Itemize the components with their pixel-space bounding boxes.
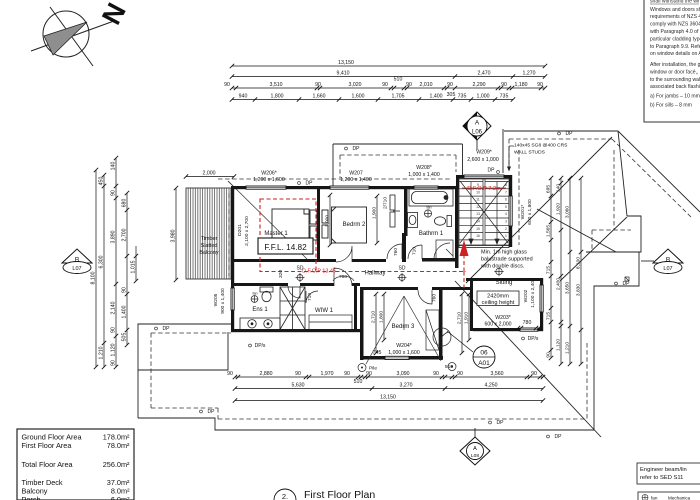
window W207 (330, 186, 369, 189)
roof eave top right solid (138, 129, 700, 437)
svg-text:90: 90 (227, 371, 233, 377)
svg-text:1,800: 1,800 (379, 311, 385, 324)
ensuite shower (280, 287, 305, 330)
DP marker top wall (298, 182, 301, 185)
svg-text:DP/s: DP/s (528, 336, 539, 342)
bed bedrm 2 (322, 207, 367, 243)
svg-text:90: 90 (406, 82, 412, 88)
sitting south wall (473, 328, 520, 331)
svg-text:a) For jambs – 10 mm: a) For jambs – 10 mm (650, 94, 700, 100)
svg-text:DP: DP (497, 420, 505, 426)
lower roof hip bottom right (455, 281, 601, 437)
svg-text:510: 510 (394, 77, 403, 83)
area schedule table (17, 429, 134, 500)
DP/s marker sitting (522, 337, 525, 340)
door bathroom (408, 245, 422, 259)
svg-text:2: 2 (505, 227, 507, 231)
svg-text:680: 680 (122, 199, 128, 208)
deck outline bottom left (138, 324, 231, 418)
svg-text:First Floor Plan: First Floor Plan (304, 489, 375, 500)
roof hip to stairwell (502, 129, 504, 173)
svg-text:760: 760 (339, 274, 347, 280)
svg-text:2,400: 2,400 (556, 278, 562, 291)
engineer note box (637, 463, 700, 484)
DP marker bottom center (489, 421, 492, 424)
svg-text:1,000 x 1,600: 1,000 x 1,600 (388, 350, 420, 356)
svg-text:11: 11 (476, 198, 480, 202)
svg-text:1,210: 1,210 (99, 346, 105, 359)
roof right step outline (586, 216, 641, 252)
dims bedrm3 left (375, 294, 377, 353)
ensuite fan symbol (251, 296, 258, 303)
bathroom fan symbol (424, 210, 431, 217)
svg-text:3,020: 3,020 (349, 82, 362, 88)
svg-text:particular cladding type, an: particular cladding type, an (650, 37, 700, 43)
svg-text:DP: DP (623, 281, 631, 287)
left dimension column 450 / 6,300 / 1,210 (103, 175, 105, 367)
svg-text:140: 140 (111, 162, 117, 171)
svg-text:2420mm: 2420mm (487, 294, 509, 300)
svg-text:1,210: 1,210 (565, 342, 571, 355)
balcony dim 3,980 (175, 188, 177, 280)
svg-text:After installation, the gap be: After installation, the gap be (650, 62, 700, 68)
svg-text:3,060: 3,060 (565, 206, 571, 219)
svg-text:90: 90 (537, 82, 543, 88)
svg-text:715: 715 (546, 266, 552, 274)
svg-text:L07: L07 (72, 266, 81, 272)
exterior top wall (231, 186, 246, 189)
balcony width dim 2,000 (186, 176, 234, 178)
svg-text:13: 13 (476, 212, 480, 216)
svg-text:505: 505 (122, 333, 128, 342)
svg-text:window or door facé,, and li: window or door facé,, and li (650, 70, 700, 76)
svg-text:A: A (473, 446, 477, 452)
dims bedrm3 right (461, 294, 463, 353)
svg-text:WALL STUDS: WALL STUDS (514, 150, 546, 156)
WIW shelves (309, 315, 352, 330)
wardrobe double doors bedrm2 (390, 195, 400, 227)
bedroom south wall (234, 259, 336, 262)
svg-text:1,565: 1,565 (546, 225, 552, 238)
window W209 (464, 175, 504, 178)
svg-text:78.0m²: 78.0m² (107, 441, 130, 450)
DP marker deck bottom (200, 410, 203, 413)
svg-text:12: 12 (476, 205, 480, 209)
window W206 (246, 186, 286, 189)
svg-text:W205: W205 (213, 293, 219, 306)
ceiling height box (477, 291, 519, 306)
svg-text:2,710: 2,710 (457, 312, 463, 325)
svg-text:SD: SD (297, 266, 304, 272)
svg-text:First Floor Area: First Floor Area (22, 441, 73, 450)
svg-text:F.F.L. 14.82: F.F.L. 14.82 (264, 243, 307, 252)
svg-text:3,830: 3,830 (576, 284, 582, 297)
balcony door dashed threshold (228, 193, 230, 276)
svg-text:1,120: 1,120 (556, 339, 562, 352)
ensuite toilet (260, 287, 273, 302)
svg-text:940: 940 (239, 94, 248, 100)
bedrm3 east wall (439, 287, 443, 360)
dimension row wall segments (232, 87, 545, 89)
bottom dim row 5,630 / 3,270 / 4,250 (235, 388, 543, 390)
svg-text:15: 15 (476, 227, 480, 231)
dashed eave along top wall (218, 178, 452, 180)
window W208 (414, 186, 438, 189)
svg-text:1,800: 1,800 (271, 94, 284, 100)
svg-text:1,100 x 2,400: 1,100 x 2,400 (530, 278, 536, 308)
bed master 1 (272, 209, 317, 242)
svg-text:L06: L06 (472, 130, 483, 136)
door WIW west (306, 291, 318, 303)
svg-text:Porch: Porch (22, 495, 41, 500)
svg-text:1,970: 1,970 (321, 371, 334, 377)
right dim col 3,060/3,650/1,210 (569, 178, 571, 364)
svg-text:Timber: Timber (201, 236, 218, 242)
svg-text:3,510: 3,510 (270, 82, 283, 88)
svg-text:W201*: W201* (520, 205, 526, 220)
bathroom basin (408, 213, 418, 228)
svg-text:9,410: 9,410 (337, 71, 350, 77)
DP marker below roof edge (547, 435, 550, 438)
svg-text:2,100 x 2,700: 2,100 x 2,700 (244, 216, 250, 246)
svg-text:DP: DP (306, 181, 314, 187)
svg-text:Hallway: Hallway (364, 271, 385, 277)
svg-text:Min. 1m high glass: Min. 1m high glass (481, 250, 527, 256)
WIW east wall (354, 283, 357, 332)
svg-text:W204*: W204* (396, 343, 412, 349)
svg-text:ceiling height: ceiling height (482, 300, 515, 306)
svg-text:1,270: 1,270 (523, 71, 536, 77)
svg-text:L07: L07 (663, 266, 672, 272)
dimension row openings 940...735 (232, 99, 513, 101)
exterior left wall (231, 186, 234, 288)
svg-text:associated back flashings s: associated back flashings s (650, 84, 700, 90)
svg-text:256.0m²: 256.0m² (103, 460, 130, 469)
dimension row overall 13,150 top (232, 65, 545, 67)
svg-text:1,180: 1,180 (515, 82, 528, 88)
stairwell top wall (456, 175, 464, 179)
svg-text:Bedrm 2: Bedrm 2 (343, 222, 366, 228)
svg-text:1,910: 1,910 (464, 312, 470, 325)
bottom dim row segments (235, 376, 543, 378)
svg-text:W206*: W206* (261, 171, 277, 177)
DP marker deck left (155, 327, 158, 330)
hall south wall segments (234, 283, 288, 286)
svg-text:90: 90 (433, 371, 439, 377)
window W203 (520, 328, 538, 331)
left dimension column 8,100 (95, 170, 97, 367)
svg-text:D.F.O.P 7.2m: D.F.O.P 7.2m (467, 186, 501, 192)
svg-text:to the surrounding wall clad: to the surrounding wall clad (650, 77, 700, 83)
dim 1,900 bedrm2 (376, 196, 378, 243)
svg-text:1,000: 1,000 (477, 94, 490, 100)
svg-text:with Paragraph 4.0 of the re: with Paragraph 4.0 of the re (650, 29, 700, 35)
svg-text:1,600: 1,600 (352, 94, 365, 100)
svg-text:DP: DP (353, 146, 361, 152)
roof edge over bedroom wing (333, 143, 463, 145)
svg-text:3,090: 3,090 (397, 371, 410, 377)
svg-text:on window details on A10 s: on window details on A10 s (650, 51, 700, 57)
svg-text:90: 90 (447, 82, 453, 88)
svg-text:90: 90 (344, 371, 350, 377)
svg-text:7: 7 (505, 190, 507, 194)
svg-text:1,705: 1,705 (392, 94, 405, 100)
wall stub by bedroom2 door (402, 233, 406, 262)
svg-text:D.F.O.P 13.45: D.F.O.P 13.45 (302, 269, 336, 275)
svg-text:90: 90 (457, 371, 463, 377)
svg-text:13,150: 13,150 (338, 60, 354, 66)
shower door bathroom corner (434, 243, 450, 259)
svg-text:6.0m²: 6.0m² (111, 495, 130, 500)
svg-text:Balcony: Balcony (199, 250, 218, 256)
svg-text:Windows and doors shall m: Windows and doors shall m (650, 7, 700, 13)
svg-text:comply with NZS 3604. Inst: comply with NZS 3604. Inst (650, 22, 700, 28)
stairwell side stubs (456, 175, 459, 189)
compass north symbol (31, 7, 114, 66)
svg-text:5: 5 (505, 205, 507, 209)
bathroom south wall (422, 258, 455, 262)
svg-text:1,000 x 1,400: 1,000 x 1,400 (408, 172, 440, 178)
svg-text:Ens 1: Ens 1 (252, 307, 268, 313)
svg-text:3: 3 (505, 220, 507, 224)
left dimension column 1,015 (135, 246, 137, 281)
svg-text:Total Floor Area: Total Floor Area (22, 460, 74, 469)
red escape dashed rect master (260, 199, 466, 288)
svg-text:90: 90 (111, 360, 117, 366)
svg-text:2,010: 2,010 (420, 82, 433, 88)
svg-text:Pile: Pile (369, 366, 377, 372)
svg-text:3,560: 3,560 (491, 371, 504, 377)
bathroom toilet (434, 216, 451, 227)
svg-text:1,920: 1,920 (556, 203, 562, 216)
svg-text:b) For sills – 8 mm: b) For sills – 8 mm (650, 103, 692, 109)
svg-text:16: 16 (476, 234, 480, 238)
drawing title (274, 489, 296, 500)
svg-text:90: 90 (382, 82, 388, 88)
svg-text:3,000: 3,000 (325, 215, 331, 228)
svg-text:fan: fan (651, 496, 658, 500)
svg-text:1,660: 1,660 (313, 94, 326, 100)
svg-text:2,700: 2,700 (122, 228, 128, 241)
svg-text:2,290: 2,290 (473, 82, 486, 88)
svg-text:L08: L08 (471, 453, 479, 459)
svg-text:Slatted: Slatted (201, 243, 218, 249)
stair balustrade (459, 246, 509, 248)
svg-text:8: 8 (505, 183, 507, 187)
notes text box (644, 0, 700, 122)
svg-text:1,400: 1,400 (430, 94, 443, 100)
svg-text:510: 510 (354, 379, 363, 385)
window W201 on stair east wall (509, 196, 512, 226)
svg-text:90: 90 (122, 287, 128, 293)
left dimension column 680 / 2,700 / 1,400 / 505 (126, 193, 128, 345)
window W204 (385, 356, 409, 359)
svg-text:W208*: W208* (416, 165, 432, 171)
svg-text:2,710: 2,710 (371, 311, 377, 324)
svg-text:2,880: 2,880 (260, 371, 273, 377)
svg-text:90: 90 (546, 352, 552, 358)
svg-text:W202: W202 (523, 289, 529, 302)
section marker B L07 right (641, 249, 683, 274)
svg-text:1,900: 1,900 (372, 207, 378, 220)
svg-text:8,100: 8,100 (91, 271, 97, 284)
svg-text:W209*: W209* (476, 150, 492, 156)
dimension row 9,410 / 2,470 / 1,270 (232, 76, 545, 78)
svg-text:90: 90 (531, 371, 537, 377)
DP/s marker ens (249, 344, 252, 347)
svg-text:W203*: W203* (495, 315, 511, 321)
svg-text:DP: DP (488, 168, 496, 174)
right dim col 140/1,920/2,400/3,650/1,120 (560, 178, 562, 364)
svg-text:90: 90 (224, 82, 230, 88)
svg-text:4: 4 (505, 212, 507, 216)
svg-text:Sitting: Sitting (496, 280, 513, 286)
svg-text:14: 14 (476, 220, 480, 224)
svg-text:450: 450 (99, 177, 105, 186)
sitting north wall (466, 278, 543, 281)
door bedrm 2 (387, 244, 402, 259)
bedrm3 raked ceiling lines (366, 296, 441, 364)
svg-text:balustrade supported: balustrade supported (481, 257, 533, 263)
svg-text:W207: W207 (349, 171, 363, 177)
section marker A L08 bottom (460, 428, 490, 465)
svg-text:90: 90 (111, 327, 117, 333)
FFL box (258, 238, 313, 254)
svg-text:305: 305 (447, 92, 456, 98)
ensuite row bottom wall (231, 329, 360, 332)
svg-text:2/710: 2/710 (383, 197, 389, 209)
right dim col 695/1,565/715/715/90 (550, 178, 552, 358)
svg-text:6,300: 6,300 (99, 255, 105, 268)
svg-text:SD: SD (399, 266, 406, 272)
svg-text:2,470: 2,470 (478, 71, 491, 77)
ensuite vanity double basin (240, 318, 280, 330)
svg-text:3,270: 3,270 (400, 383, 413, 389)
svg-text:with double discs.: with double discs. (480, 264, 525, 270)
svg-text:1,200 x 1,600: 1,200 x 1,600 (253, 177, 285, 183)
svg-text:780: 780 (523, 320, 532, 326)
roof valley (537, 209, 616, 252)
left dimension column 140 / 90 / 3,890 / 2,140 / 1,120 (115, 158, 117, 367)
svg-text:695: 695 (546, 185, 552, 193)
svg-text:Mechanica: Mechanica (668, 496, 691, 500)
bedrm3 north wall (360, 287, 418, 290)
svg-text:DP: DP (555, 434, 563, 440)
svg-text:5,630: 5,630 (292, 383, 305, 389)
detail marker 06 A01 (447, 331, 495, 368)
svg-text:WIW 1: WIW 1 (315, 308, 334, 314)
door master 1 (336, 246, 352, 262)
legend box (638, 492, 700, 500)
svg-text:1,015: 1,015 (131, 260, 137, 273)
svg-text:refer to SED S11: refer to SED S11 (640, 475, 683, 481)
SD symbol stairs (494, 267, 503, 276)
bathroom west wall (404, 189, 408, 236)
svg-text:DP: DP (566, 131, 574, 137)
pile marker left (358, 364, 366, 372)
svg-text:760: 760 (432, 294, 438, 302)
master / bedrm2 divider wall (317, 189, 320, 262)
svg-text:2,600 x 1,000: 2,600 x 1,000 (467, 157, 499, 163)
sitting west wall (470, 278, 473, 331)
svg-text:A: A (475, 120, 480, 127)
svg-text:DP/s: DP/s (255, 343, 266, 349)
svg-text:2.: 2. (282, 492, 288, 500)
svg-text:fan: fan (427, 206, 432, 210)
svg-text:13,150: 13,150 (380, 395, 396, 401)
svg-text:DP: DP (208, 409, 216, 415)
leader diagonal (228, 181, 307, 259)
dim 3,000 bedrm2 (329, 195, 331, 245)
svg-text:760: 760 (393, 248, 399, 256)
svg-text:90: 90 (315, 82, 321, 88)
svg-text:320: 320 (278, 270, 284, 278)
svg-text:2,000: 2,000 (203, 171, 216, 177)
svg-text:A01: A01 (478, 360, 490, 367)
section marker B L07 left (62, 249, 92, 274)
pile marker right (448, 363, 456, 371)
svg-text:Engineer beam/lin: Engineer beam/lin (640, 467, 687, 473)
svg-text:715: 715 (546, 312, 552, 320)
svg-text:900 x 1,400: 900 x 1,400 (220, 288, 226, 314)
stair west wall (455, 186, 459, 268)
svg-text:Master 1: Master 1 (264, 231, 288, 237)
sitting east wall (540, 278, 543, 285)
red arrow up stairs (460, 240, 469, 256)
bath tub (409, 189, 453, 206)
svg-text:90: 90 (295, 371, 301, 377)
svg-text:600 x 1,800: 600 x 1,800 (527, 199, 533, 225)
svg-text:3,650: 3,650 (565, 282, 571, 295)
svg-text:1: 1 (505, 234, 507, 238)
window W205 (231, 288, 234, 310)
svg-text:2,140: 2,140 (111, 301, 117, 314)
door ensuite (288, 286, 300, 298)
svg-text:06: 06 (480, 350, 488, 357)
svg-text:1,120: 1,120 (111, 343, 117, 356)
stairwell treads (459, 179, 509, 245)
section marker A L06 top (463, 112, 491, 150)
DP marker right side (625, 277, 629, 281)
bedrm3 west wall (360, 287, 364, 360)
svg-text:3,890: 3,890 (111, 230, 117, 243)
svg-text:90: 90 (366, 371, 372, 377)
bedrm3 closet (426, 310, 451, 350)
svg-text:D201: D201 (237, 224, 243, 236)
window W202 (540, 285, 543, 312)
svg-text:Bedrm 3: Bedrm 3 (392, 324, 415, 330)
bottom dim row 13,150 (235, 400, 543, 402)
door bedrm 3 (418, 290, 432, 304)
right dim col 3,830/8,100 (580, 178, 582, 364)
DP marker roof top center (345, 147, 348, 150)
bedrm3 south wall (360, 356, 385, 360)
dashed eave lines (151, 139, 692, 419)
svg-text:90: 90 (111, 190, 117, 196)
svg-text:600 x 2,000: 600 x 2,000 (484, 322, 511, 328)
svg-text:1,400: 1,400 (122, 305, 128, 318)
svg-text:to Paragraph 9.9. Refer als: to Paragraph 9.9. Refer als (650, 44, 700, 50)
svg-text:4,250: 4,250 (485, 383, 498, 389)
DP marker roof top right (558, 132, 561, 135)
svg-text:6: 6 (505, 198, 507, 202)
svg-text:DP: DP (163, 326, 171, 332)
svg-text:90: 90 (501, 82, 507, 88)
svg-text:710: 710 (307, 293, 313, 301)
roof hip corner right (618, 131, 700, 212)
svg-text:1,200 x 1,400: 1,200 x 1,400 (340, 177, 372, 183)
svg-text:fan: fan (253, 292, 258, 296)
